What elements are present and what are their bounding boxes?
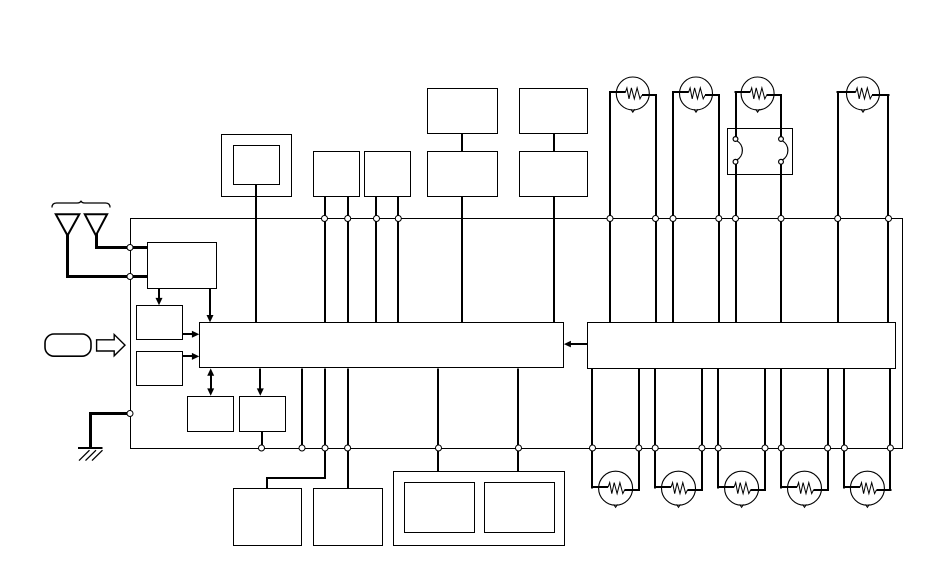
wire S1 pin 2	[347, 196, 349, 323]
wire main ECU output 1	[301, 368, 303, 448]
node left edge 2	[127, 274, 133, 280]
block key cylinder switch S3	[428, 89, 498, 134]
node left edge 1	[127, 245, 133, 251]
wire lamp feed top 3	[672, 219, 674, 323]
wire main ECU to motor unit right	[517, 368, 519, 471]
wire meter to main ECU	[255, 185, 257, 323]
wire lamp feed bottom 4	[701, 368, 703, 448]
node top bus 2	[345, 216, 351, 222]
node bottom bus 7	[590, 445, 596, 451]
wire main ECU to motor unit left	[437, 368, 439, 471]
node top bus 11	[835, 216, 841, 222]
block tuner B1	[137, 306, 183, 340]
wire lamp feed bottom 1	[591, 368, 593, 448]
wire lamp feed bottom 6	[764, 368, 766, 448]
antenna ANT2	[85, 214, 107, 235]
node top bus 3	[374, 216, 380, 222]
wire lamp feed bottom 7	[780, 368, 782, 448]
wire lamp feed top 8	[887, 219, 889, 323]
block door control receiver U1	[148, 243, 217, 289]
wire S1 pin 1	[324, 196, 326, 323]
wire S6 to main ECU	[553, 197, 555, 323]
block wiring junction enclosure	[131, 219, 903, 449]
wire tuner to main ECU with arrow	[182, 331, 199, 338]
wire relay to main ECU with arrow	[564, 341, 587, 348]
node bottom bus 16	[887, 445, 893, 451]
node bottom bus 4	[345, 445, 351, 451]
wire S4 to main ECU	[461, 197, 463, 323]
key fob transmitter	[45, 334, 91, 356]
wire lamp feed top 5	[735, 219, 737, 323]
lamp L8	[780, 448, 829, 507]
wire lamp feed top 7	[837, 219, 839, 323]
node bottom bus 1	[259, 445, 265, 451]
wire lamp feed top 6	[780, 219, 782, 323]
node left edge 3	[127, 411, 133, 417]
node top bus 9	[733, 216, 739, 222]
wire lamp feed bottom 10	[889, 368, 891, 448]
block door lock switch S6	[520, 152, 588, 197]
lamp L1 (room light)	[609, 77, 657, 219]
wire receiver to main ECU with arrow	[207, 289, 214, 323]
node top bus 5	[607, 216, 613, 222]
wire S5 to S6	[553, 134, 555, 152]
ground	[78, 414, 130, 461]
block motor unit (container)	[394, 472, 565, 546]
node top bus 7	[670, 216, 676, 222]
wire lamp feed top 4	[718, 219, 720, 323]
node top bus 10	[778, 216, 784, 222]
connector J1	[728, 129, 793, 175]
lamp L9	[843, 448, 891, 507]
lamp L6	[654, 448, 703, 507]
antenna ANT1	[56, 214, 80, 235]
node top bus 8	[716, 216, 722, 222]
lamp L5	[591, 448, 640, 507]
wire sensor to main ECU with arrow	[182, 353, 199, 360]
wire main ECU to buzzer with arrow	[257, 368, 264, 396]
node bottom bus 8	[636, 445, 642, 451]
wire main ECU output 2	[324, 368, 326, 448]
block motor M1	[405, 483, 475, 533]
block buzzer B4	[240, 397, 286, 432]
wire lamp feed top 2	[655, 219, 657, 323]
node bottom bus 2	[299, 445, 305, 451]
wire lamp feed bottom 9	[843, 368, 845, 448]
wire lamp feed top 1	[609, 219, 611, 323]
wire RF input 1	[130, 246, 148, 249]
node bottom bus 6	[516, 445, 522, 451]
node bottom bus 11	[715, 445, 721, 451]
wire main ECU to memory (double arrow)	[207, 368, 214, 395]
node bottom bus 15	[841, 445, 847, 451]
lamp L3	[734, 77, 782, 219]
wire lamp feed bottom 8	[827, 368, 829, 448]
block actuator A2	[314, 489, 383, 546]
node bottom bus 9	[652, 445, 658, 451]
wire S2 pin 1	[375, 196, 377, 323]
wire S3 to S4	[461, 134, 463, 152]
node top bus 1	[322, 216, 328, 222]
brace antenna group	[52, 201, 110, 208]
wire bus to actuator A1 (bend)	[267, 448, 325, 488]
wire RF input 2	[130, 275, 148, 278]
node top bus 6	[653, 216, 659, 222]
block memory B3	[188, 397, 234, 432]
block door lock switch S4	[428, 152, 498, 197]
block motor M2	[485, 483, 555, 533]
wire receiver to tuner with arrow	[156, 289, 163, 306]
wire antenna ANT2 lead	[97, 234, 131, 248]
lamp L4	[837, 77, 890, 219]
node bottom bus 3	[322, 445, 328, 451]
block driver side junction relay U3	[588, 323, 896, 369]
wire main ECU to actuator A2	[347, 368, 349, 488]
wire buzzer to bus	[261, 431, 263, 448]
wire lamp feed bottom 3	[654, 368, 656, 448]
node top bus 12	[886, 216, 892, 222]
wire S2 pin 2	[397, 196, 399, 323]
lamp L7	[717, 448, 766, 507]
node bottom bus 14	[825, 445, 831, 451]
node top bus 4	[395, 216, 401, 222]
block switch S1	[314, 152, 360, 197]
wire lamp feed bottom 5	[717, 368, 719, 448]
block switch S2	[365, 152, 411, 197]
node bottom bus 13	[778, 445, 784, 451]
node bottom bus 10	[699, 445, 705, 451]
node bottom bus 5	[436, 445, 442, 451]
block actuator A1	[234, 489, 302, 546]
block combination meter (double frame)	[222, 135, 292, 197]
block main body ECU U2	[200, 323, 564, 368]
block sensor B2	[137, 352, 183, 386]
arrow transmit signal	[97, 335, 125, 356]
wire antenna ANT1 lead	[68, 234, 131, 277]
lamp L2	[672, 77, 720, 219]
block key cylinder switch S5	[520, 89, 588, 134]
wire lamp feed bottom 2	[638, 368, 640, 448]
node bottom bus 12	[762, 445, 768, 451]
